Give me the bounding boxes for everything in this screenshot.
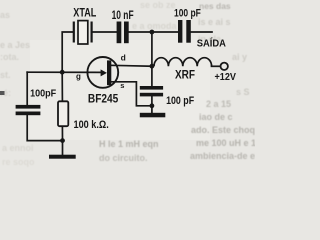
svg-text:is e ai s: is e ai s <box>198 17 231 27</box>
svg-text:d: d <box>121 53 126 63</box>
svg-text:100 pF: 100 pF <box>174 8 201 20</box>
svg-text:+12V: +12V <box>215 72 237 83</box>
capacitor C4 100pF bypass <box>140 86 163 96</box>
wire: left cap bottom L to ground junction <box>27 115 62 140</box>
svg-text:as: as <box>0 10 10 20</box>
svg-text:a ennoi: a ennoi <box>2 143 34 153</box>
svg-text:BF245: BF245 <box>88 94 119 106</box>
inductor XRF <box>154 58 212 67</box>
node E ground junction <box>60 138 65 143</box>
svg-text:XRF: XRF <box>175 70 195 82</box>
svg-text:e a Jes: e a Jes <box>0 40 30 50</box>
node B drain junction <box>150 64 155 69</box>
svg-text:st.: st. <box>0 70 11 80</box>
svg-text:iao de c: iao de c <box>199 112 233 122</box>
svg-text:nes das: nes das <box>199 1 231 11</box>
ground left <box>49 155 76 159</box>
svg-text:do circuito.: do circuito. <box>99 153 148 163</box>
svg-text:10 nF: 10 nF <box>112 8 134 22</box>
wire: bypass cap stem bottom + ground stem <box>151 96 153 113</box>
wire: ground stem left <box>62 141 64 155</box>
svg-text:g: g <box>76 72 81 81</box>
crystal XTAL <box>74 21 92 44</box>
svg-text:2 a 15: 2 a 15 <box>206 99 231 109</box>
capacitor C3 100pF left <box>16 105 41 115</box>
ground right <box>140 113 166 118</box>
svg-text:me 100 uH e 1: me 100 uH e 1 <box>196 138 255 148</box>
svg-text:s: s <box>120 81 124 90</box>
svg-text:e a omoda: e a omoda <box>132 21 178 31</box>
wire: 10nF to 100pF output cap <box>129 31 179 33</box>
svg-text:re soqo: re soqo <box>2 157 35 167</box>
svg-text:ado. Este choq: ado. Este choq <box>191 125 255 135</box>
capacitor C2 100pF output <box>178 20 191 43</box>
wire: drain to node <box>110 64 152 67</box>
wire: top rail left segment to crystal <box>62 32 73 72</box>
edge mark <box>0 91 5 95</box>
ghost bleed-through text (background scan artifacts) <box>0 0 263 167</box>
+12V terminal <box>221 63 228 70</box>
svg-text:ambiencia-de ele: ambiencia-de ele <box>190 151 255 161</box>
svg-text:100pF: 100pF <box>30 89 56 100</box>
resistor R1 100k <box>58 101 68 126</box>
svg-text:ai y: ai y <box>232 52 247 62</box>
svg-text:100 pF: 100 pF <box>166 95 194 107</box>
svg-text:se ob ze: se ob ze <box>140 0 176 10</box>
svg-text:s S: s S <box>236 87 250 97</box>
capacitor C1 10nF <box>117 22 129 44</box>
wire: XRF to +12V terminal <box>212 65 221 67</box>
svg-text::ota.: :ota. <box>0 52 19 62</box>
svg-text:XTAL: XTAL <box>73 6 96 20</box>
wire: left cap riser <box>26 72 28 105</box>
svg-text:SAÍDA: SAÍDA <box>197 37 227 50</box>
svg-text:H le 1 mH eqn: H le 1 mH eqn <box>99 139 159 149</box>
wire: riser from top rail junction down to drain node <box>151 32 153 66</box>
wire: output cap to SAIDA end <box>191 31 212 33</box>
wire: source L path <box>111 82 152 106</box>
node C source junction <box>150 103 155 108</box>
wire: gate node horizontal <box>27 71 103 73</box>
wire: resistor bottom to ground junction <box>61 126 63 140</box>
wire: crystal to 10nF <box>93 31 117 33</box>
wire: gate node down to resistor <box>61 72 63 101</box>
svg-text:100 k.Ω.: 100 k.Ω. <box>74 119 109 131</box>
wire: bypass cap stem top <box>151 66 153 86</box>
node D gate junction <box>60 70 65 75</box>
node A top junction <box>150 30 155 35</box>
transistor Q1 BF245 <box>87 57 118 88</box>
